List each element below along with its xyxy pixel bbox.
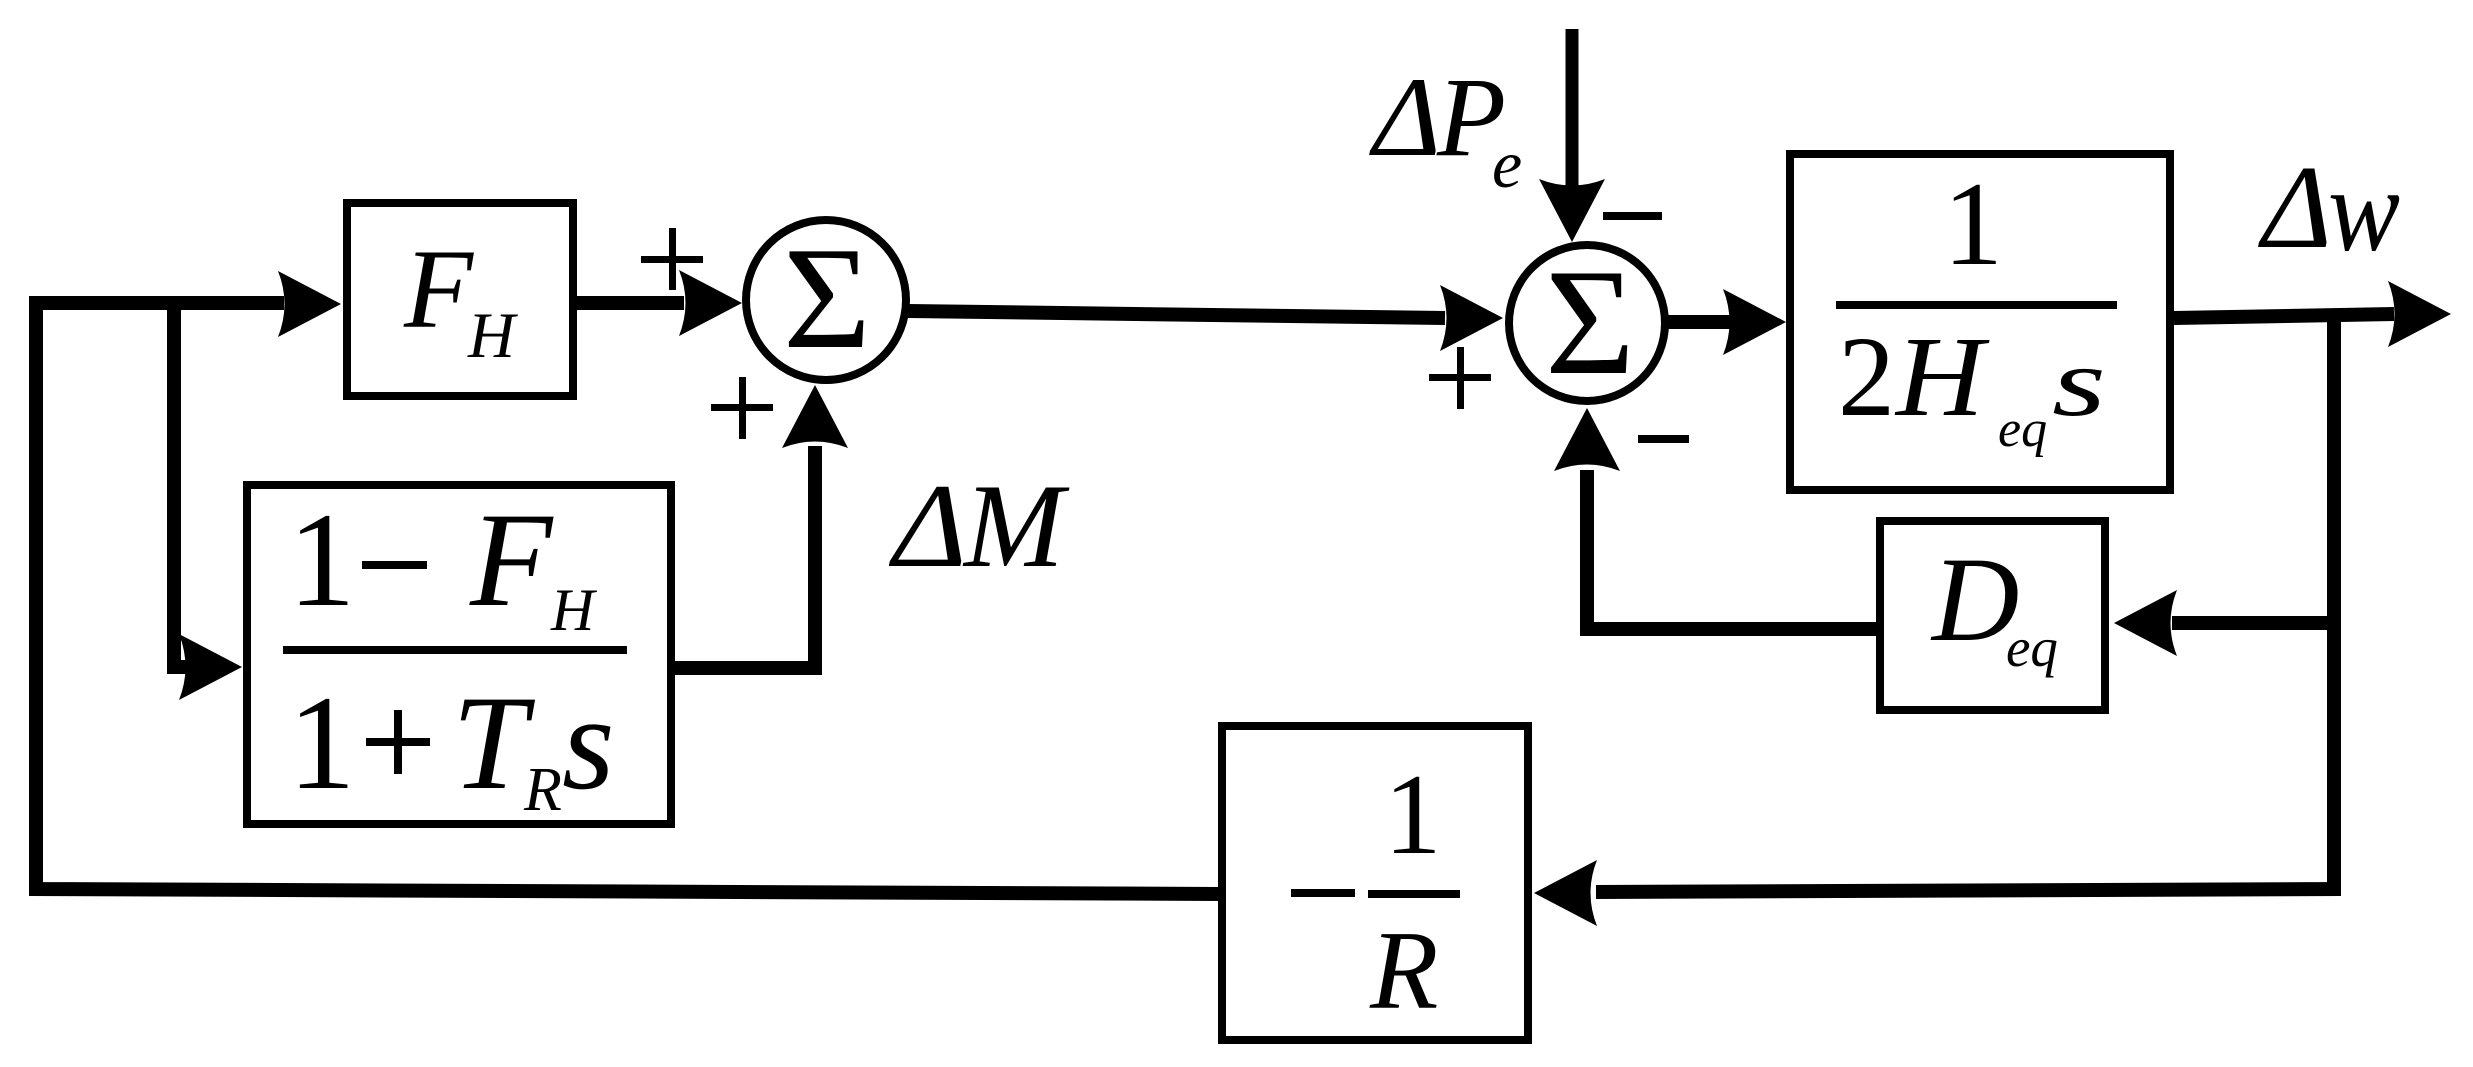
- svg-text:H: H: [467, 300, 518, 372]
- block -1/R: [1222, 726, 1528, 1040]
- wire branch down from output to bottom rail and into -1/R: [1596, 311, 2334, 892]
- arrowhead down into summer 2: [1539, 179, 1605, 242]
- svg-text:1: 1: [288, 669, 356, 818]
- svg-text:M: M: [962, 459, 1070, 592]
- summer 2 circle: [1509, 245, 1665, 401]
- block 1/(2Heq s): [1790, 154, 2170, 490]
- wire FH to summer 1: [573, 296, 684, 310]
- fraction bar: [1836, 301, 2117, 309]
- arrowhead into inertia block: [1723, 289, 1786, 355]
- svg-text:Δ: Δ: [1369, 55, 1441, 180]
- output arrowhead: [2388, 281, 2451, 347]
- svg-text:R: R: [1369, 909, 1438, 1033]
- wire delta Pe input from top: [1566, 29, 1579, 186]
- plus sign at summer 2 left input: [1429, 347, 1491, 409]
- minus sign at summer 2 bottom input: [1638, 435, 1689, 443]
- plus sign at summer 1 left input: [641, 228, 703, 290]
- plus sign at summer 1 bottom input: [711, 377, 773, 439]
- block Deq: [1880, 521, 2105, 710]
- svg-text:eq: eq: [1998, 401, 2047, 458]
- arrowhead into summer 2: [1440, 285, 1503, 351]
- svg-text:1: 1: [1943, 157, 2003, 290]
- block (1-FH)/(1+TRs): [247, 485, 671, 824]
- svg-text:1: 1: [1384, 751, 1442, 878]
- block FH: [347, 203, 573, 396]
- svg-text:eq: eq: [2006, 617, 2058, 678]
- svg-text:Σ: Σ: [1545, 238, 1635, 406]
- wire from branch to Deq block: [2172, 616, 2334, 630]
- wire Deq output left then up into summer 2 bottom: [1587, 470, 1876, 629]
- minus sign at summer 2 top input: [1603, 212, 1662, 220]
- arrowhead into summer 1: [679, 270, 742, 336]
- arrowhead into lower transfer-function block: [179, 634, 242, 700]
- svg-text:F: F: [403, 227, 474, 352]
- svg-text:s: s: [562, 669, 615, 818]
- wire summer 2 to inertia block: [1663, 315, 1730, 329]
- arrowhead left into -1/R block: [1534, 860, 1597, 926]
- wire summer1 to summer2: [908, 311, 1445, 318]
- svg-text:w: w: [2328, 144, 2400, 276]
- svg-text:Δ: Δ: [889, 459, 967, 592]
- summer 1 circle: [746, 220, 906, 380]
- svg-text:H: H: [550, 577, 598, 643]
- wire: branch from top rail down to lower block input: [174, 310, 186, 667]
- svg-text:e: e: [1492, 126, 1522, 202]
- svg-text:F: F: [469, 486, 554, 635]
- arrowhead up into summer 2 bottom: [1554, 408, 1620, 471]
- svg-text:H: H: [1894, 313, 1990, 440]
- svg-text:R: R: [523, 756, 562, 824]
- svg-text:1: 1: [288, 486, 356, 635]
- svg-text:2: 2: [1838, 313, 1895, 440]
- fraction bar of 1/R: [1368, 890, 1460, 898]
- minus sign of -1/R: [1291, 889, 1355, 897]
- svg-text:Σ: Σ: [783, 217, 871, 379]
- fraction bar: [283, 646, 627, 654]
- arrowhead into FH block: [278, 271, 341, 337]
- arrowhead up into summer 1: [782, 385, 848, 448]
- wire: bottom feedback rail from -1/R output, left rail up, into FH input: [36, 303, 1220, 894]
- svg-text:s: s: [2052, 329, 2106, 437]
- arrowhead left into Deq block: [2114, 590, 2177, 656]
- wire lower block output up to summer 1 bottom: [673, 446, 815, 668]
- svg-text:Δ: Δ: [2258, 141, 2332, 273]
- wire inertia block output to right with branch down: [2174, 314, 2394, 318]
